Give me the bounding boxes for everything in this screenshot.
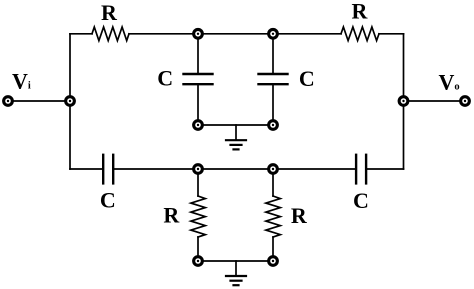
wire resistor to node 1 [129,33,198,35]
terminal Vi [2,95,14,107]
ground symbol bottom bar1 [226,275,246,277]
capacitor C bottom-left plate B [112,155,114,184]
wire bottom cap to node3 [113,168,198,170]
wire node5 to node6 mid [198,124,273,126]
ground symbol mid bar1 [226,139,246,141]
wire top left segment [70,33,92,35]
svg-text:C: C [353,188,369,213]
capacitor C top-right plate B [259,83,288,85]
node output junction [398,95,410,107]
capacitor C bottom-right plate B [365,155,367,184]
wire node1 down to top-left cap [197,34,199,74]
wire right resistor to node8 [272,237,274,261]
svg-text:C: C [157,65,173,90]
wire left resistor to node7 [197,237,199,261]
wire node7 to node8 bottom [198,260,273,262]
wire node2 to right resistor [273,33,341,35]
wire left rail vertical [69,34,71,169]
svg-text:R: R [291,203,308,228]
resistor R bottom-left [191,196,205,237]
node input junction [64,95,76,107]
ground symbol mid bar3 [234,148,239,150]
wire ground stem mid [235,125,237,140]
wire right rail vertical [403,34,405,169]
capacitor C top-right plate A [259,73,288,75]
resistor R top-right [341,27,379,41]
wire ground stem bottom [235,261,237,275]
svg-text:R: R [101,0,118,25]
wire top right segment [379,33,404,35]
svg-text:Vo: Vo [439,70,460,95]
wire node4 down to right resistor [272,169,274,196]
capacitor C top-left plate A [184,73,213,75]
wire node1 to node2 top [198,33,273,35]
wire node3 down to left resistor [197,169,199,196]
node 4 bottom rail right [267,163,279,175]
ground symbol bottom bar2 [231,280,242,282]
wire top-right cap to node6 [272,84,274,125]
capacitor C bottom-right plate A [355,155,357,184]
svg-text:R: R [163,202,180,227]
wire output node to Vo terminal [404,100,466,102]
resistor R top-left [92,27,129,41]
capacitor C top-left plate B [184,83,213,85]
node 2 top-right [267,28,279,40]
svg-text:C: C [100,187,116,212]
node 7 resistor bottom left [192,255,204,267]
wire node2 down to top-right cap [272,34,274,74]
ground symbol bottom bar3 [234,284,239,286]
node 8 resistor bottom right [267,255,279,267]
svg-text:Vi: Vi [12,68,31,93]
node 5 cap junction left [192,119,204,131]
node 1 top-left [192,28,204,40]
svg-text:C: C [299,66,315,91]
node 6 cap junction right [267,119,279,131]
wire bottom rail left [70,168,103,170]
svg-text:R: R [352,0,369,24]
wire right bottom cap to right rail [366,168,403,170]
terminal Vo [459,95,471,107]
resistor R bottom-right [266,196,280,237]
ground symbol mid bar2 [231,144,242,146]
wire node3 to node4 bottom rail [198,168,273,170]
node 3 bottom rail left [192,163,204,175]
wire Vi terminal to input node [8,100,70,102]
capacitor C bottom-left plate A [102,155,104,184]
wire node4 to right bottom cap [273,168,356,170]
wire top-left cap to node5 [197,84,199,125]
